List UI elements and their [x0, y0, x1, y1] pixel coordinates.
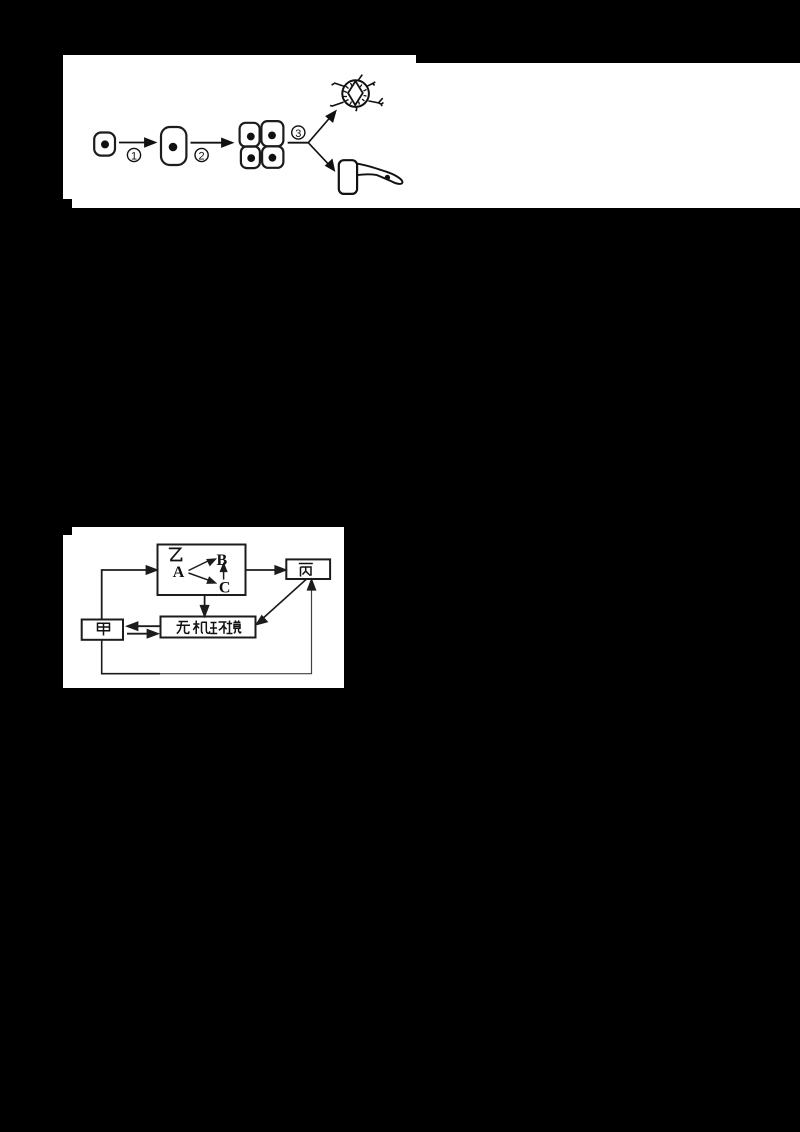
wire 乙 down to 无机环境 with arrowhead — [201, 595, 209, 616]
paper: top white band right extension — [416, 63, 800, 208]
svg-text:A: A — [173, 564, 185, 581]
muscle cell — [339, 160, 403, 194]
black notch at top-left of middle box — [63, 527, 72, 535]
arrow 2 (cell2 to cluster) — [191, 139, 233, 147]
box 甲 — [82, 620, 123, 640]
cell 1 nucleus — [101, 140, 109, 148]
diagram 2: ecosystem carbon cycle — [60, 525, 350, 695]
svg-text:3: 3 — [295, 128, 301, 140]
letters A B C — [173, 552, 231, 597]
character 乙 (drawn strokes) — [169, 548, 182, 560]
wire 甲 to 无机环境 with arrowhead — [127, 630, 158, 638]
four-cell cluster — [240, 121, 284, 168]
paper: middle white box — [63, 527, 344, 688]
character 丙 (drawn strokes) — [299, 564, 313, 577]
circled label 3 — [292, 126, 305, 140]
cluster nuclei — [247, 132, 276, 163]
circled label 2 — [195, 148, 208, 162]
black notch at bottom-left of top band — [63, 199, 72, 208]
wire 甲 to 乙 with arrowhead — [102, 566, 157, 619]
box 丙 — [286, 559, 330, 579]
svg-text:B: B — [216, 552, 227, 569]
paper: top white band — [63, 55, 416, 208]
arrow A to C inside 乙 — [189, 573, 216, 583]
cell 2 nucleus — [169, 143, 178, 152]
svg-text:C: C — [219, 580, 231, 597]
cell 1 (stem cell) — [94, 133, 115, 156]
circled label 1 — [127, 148, 140, 162]
cell 2 (grown cell) — [161, 127, 186, 165]
wire 丙 diagonal down to 无机环境 with arrowhead — [257, 580, 307, 625]
branch arrows (cluster to neuron and muscle cell) — [288, 111, 336, 170]
wire 无机环境 to 甲 with arrowhead — [128, 622, 161, 630]
character 甲 (drawn strokes) — [98, 623, 110, 635]
arrow A to B inside 乙 — [189, 559, 216, 570]
arrow C to B inside 乙 — [221, 564, 227, 580]
arrow 1 (cell1 to cell2) — [119, 139, 155, 147]
neuron (nerve cell) — [330, 75, 384, 111]
box 无机环境 (inorganic environment) — [161, 617, 256, 638]
box 乙 (producers) — [158, 545, 246, 596]
svg-text:2: 2 — [199, 150, 205, 162]
svg-text:1: 1 — [131, 150, 137, 162]
diagram 1: cell division and differentiation — [60, 50, 420, 210]
characters 无机环境 (drawn strokes) — [177, 621, 242, 635]
wire 甲 bottom feedback loop up into 丙 with arrowhead — [102, 580, 316, 674]
wire 乙 to 丙 with arrowhead — [246, 566, 286, 574]
